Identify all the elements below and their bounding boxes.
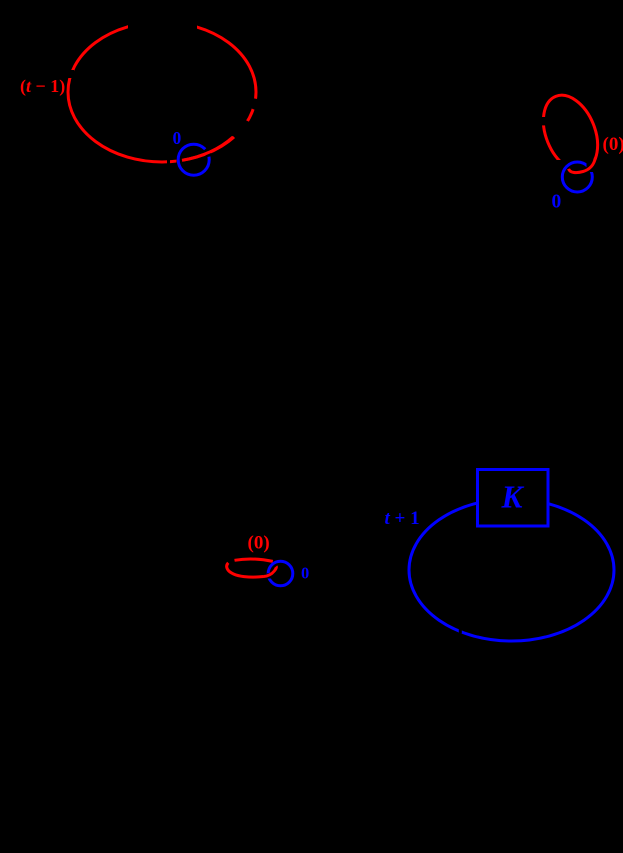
label (0) for red unknot B [603, 134, 623, 155]
svg-text:0: 0 [173, 128, 182, 148]
knot box K [478, 470, 549, 527]
red unknot C (middle left, flat) [227, 559, 273, 577]
red unknot B (top right, tilted) [533, 87, 608, 179]
svg-text:(0): (0) [248, 533, 270, 554]
svg-text:0: 0 [552, 192, 562, 213]
svg-text:(t − 1): (t − 1) [20, 76, 65, 97]
blue knot K circle D (bottom right) [409, 499, 614, 641]
svg-text:t + 1: t + 1 [385, 508, 420, 529]
svg-text:0: 0 [301, 564, 309, 583]
red strand over blue circle C (hook end) [264, 566, 277, 578]
red unknot A (left surgery curve) [64, 18, 256, 165]
label 0 for blue meridian C [301, 564, 309, 583]
red strand over blue circle B (hook end) [569, 158, 596, 173]
label K inside box [501, 480, 525, 515]
label 0 for blue meridian B [552, 192, 562, 213]
svg-text:(0): (0) [603, 134, 623, 155]
blue meridian circle C [268, 561, 293, 586]
blue meridian circle A [178, 144, 209, 175]
label (0) for red unknot C [248, 533, 270, 554]
label (t-1) for red unknot A [20, 76, 65, 97]
blue meridian circle B [562, 162, 592, 192]
svg-text:K: K [501, 480, 525, 515]
label t+1 for blue circle D [385, 508, 420, 529]
label 0 for blue meridian A [173, 128, 182, 148]
red strand over blue circle A [182, 137, 233, 160]
